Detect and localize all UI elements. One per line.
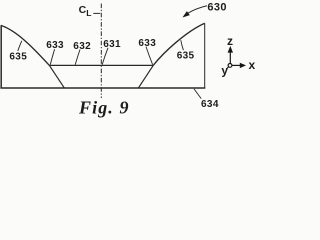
- left curved surface (outline of wing 635, left): [1, 25, 50, 65]
- leader for 632: [75, 50, 80, 65]
- leader for right 635: [181, 40, 184, 50]
- arrow for 630: [188, 6, 208, 14]
- svg-text:z: z: [227, 34, 233, 48]
- center line CL (dash-dot vertical): [100, 4, 102, 99]
- flat center surface line: [49, 64, 153, 66]
- paper background: [0, 0, 255, 120]
- leader for left 633: [50, 49, 54, 64]
- svg-text:635: 635: [9, 52, 27, 63]
- svg-text:y: y: [221, 63, 228, 77]
- svg-text:Fig. 9: Fig. 9: [78, 97, 130, 117]
- svg-text:632: 632: [73, 41, 91, 52]
- label CL: [79, 4, 92, 18]
- leader for 631: [102, 48, 108, 65]
- y axis tick toward label: [226, 67, 228, 69]
- CL connector dash: [93, 12, 100, 14]
- x axis shaft: [232, 64, 241, 66]
- svg-text:635: 635: [177, 51, 195, 62]
- right curved surface (outline of wing 635, right): [153, 23, 205, 65]
- z axis shaft: [229, 51, 231, 64]
- svg-text:634: 634: [201, 99, 219, 110]
- svg-text:631: 631: [103, 39, 121, 50]
- left interior diagonal (boundary of center mesa): [49, 65, 64, 87]
- right interior diagonal (boundary of center mesa): [139, 65, 154, 87]
- left vertical edge of body: [0, 25, 2, 88]
- x axis arrowhead: [240, 63, 246, 68]
- coordinate axes origin circle (y axis out of page): [228, 64, 232, 68]
- z axis arrowhead: [228, 46, 233, 53]
- right vertical edge of body: [204, 23, 206, 88]
- svg-text:630: 630: [207, 1, 227, 13]
- bottom edge of base 634: [0, 87, 205, 89]
- leader for left 635: [18, 41, 22, 51]
- leader for right 633: [146, 47, 153, 65]
- svg-text:633: 633: [138, 38, 156, 49]
- svg-text:633: 633: [46, 40, 64, 51]
- svg-text:L: L: [86, 8, 91, 18]
- leader for 634: [194, 89, 201, 99]
- arrowhead 630: [183, 12, 189, 17]
- svg-text:x: x: [249, 58, 256, 72]
